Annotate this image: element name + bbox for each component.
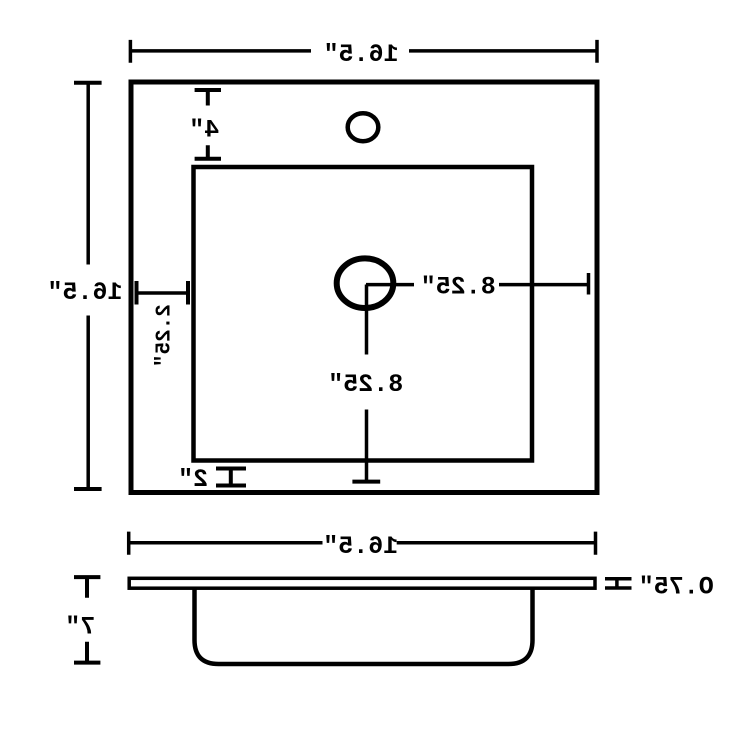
svg-text:4″: 4″	[189, 116, 219, 145]
basin bottom inset 2 inch dimension	[216, 469, 246, 486]
svg-text:7″: 7″	[65, 612, 95, 641]
top width dimension line	[130, 49, 597, 53]
svg-text:2″: 2″	[178, 465, 208, 494]
left height dimension end ticks	[74, 83, 102, 489]
drain horizontal 8.25 inch dimension line	[366, 283, 588, 287]
sink outer rim (top view)	[131, 82, 597, 493]
faucet hole	[348, 113, 379, 141]
faucet offset 4 inch dimension	[195, 90, 221, 159]
top width dimension end ticks	[130, 40, 597, 63]
left height dimension line	[86, 83, 90, 489]
sink basin inner rim (top view)	[194, 167, 533, 461]
svg-text:8.25″: 8.25″	[328, 370, 403, 399]
drain hole	[337, 258, 394, 308]
svg-text:8.25″: 8.25″	[421, 273, 496, 302]
basin inset 2.25 inch dimension ticks	[137, 281, 189, 305]
svg-text:16.5″: 16.5″	[324, 40, 399, 69]
bowl profile (side view)	[195, 589, 533, 665]
drain vertical dimension end tick	[352, 480, 380, 484]
svg-text:O.75″: O.75″	[639, 573, 714, 602]
slab thickness 0.75 inch tick	[605, 577, 632, 590]
countertop slab (side view)	[129, 578, 595, 588]
drain horizontal dimension end tick	[587, 273, 591, 295]
side view width dimension line	[129, 541, 596, 545]
bowl depth 7 inch dimension	[74, 577, 100, 663]
side view width dimension end ticks	[129, 532, 596, 555]
drain vertical 8.25 inch dimension line	[365, 285, 369, 481]
svg-text:2.25″: 2.25″	[153, 304, 176, 367]
svg-text:16.5″: 16.5″	[323, 532, 398, 561]
svg-text:16.5″: 16.5″	[47, 278, 122, 307]
basin inset 2.25 inch dimension line	[137, 291, 188, 295]
